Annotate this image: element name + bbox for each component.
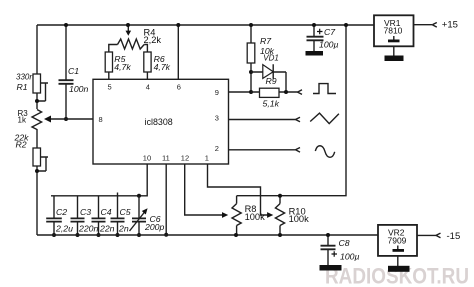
resistor R5 xyxy=(105,52,131,79)
potentiometer R3 xyxy=(18,109,42,131)
node pin6 rail xyxy=(176,23,180,27)
svg-text:100n: 100n xyxy=(69,84,88,94)
wire R3 to R2 xyxy=(36,131,38,148)
svg-text:R2: R2 xyxy=(16,140,27,150)
R10 wiper arrowhead xyxy=(267,212,273,218)
wire pin 1 to R10 wiper xyxy=(208,164,268,215)
capacitor C4 xyxy=(92,196,115,235)
wire pin 3 triangle out xyxy=(229,119,296,121)
svg-text:7810: 7810 xyxy=(384,26,403,36)
wire left rail upper xyxy=(36,25,38,74)
wire pin 2 sine out xyxy=(229,149,296,151)
wire top +rail xyxy=(37,24,374,26)
wire pin 9 xyxy=(229,91,252,93)
node R1 bottom junction xyxy=(35,99,39,103)
svg-text:C5: C5 xyxy=(120,207,131,217)
svg-text:VD1: VD1 xyxy=(263,53,279,62)
potentiometer R4 xyxy=(109,25,162,52)
ground below VR1 xyxy=(385,56,404,62)
ground below C8 xyxy=(320,265,342,271)
node C1 bottom / pin8 wire xyxy=(64,117,68,121)
svg-text:100µ: 100µ xyxy=(319,40,339,50)
capacitor C1 xyxy=(59,25,89,119)
node C5 bottom on rail xyxy=(116,233,120,237)
svg-text:C3: C3 xyxy=(80,207,91,217)
svg-text:3: 3 xyxy=(215,114,219,123)
C5 lead tick over bus xyxy=(117,193,119,196)
wire pin 12 to R8 wiper xyxy=(185,164,223,215)
svg-text:icl8308: icl8308 xyxy=(145,117,173,127)
svg-text:C1: C1 xyxy=(68,66,79,76)
square wave symbol xyxy=(313,84,336,94)
svg-text:2: 2 xyxy=(215,144,219,153)
capacitor C5 xyxy=(111,196,131,235)
svg-text:5: 5 xyxy=(108,82,112,91)
node C7 top xyxy=(312,23,316,27)
resistor R2 xyxy=(14,133,49,236)
svg-text:9: 9 xyxy=(215,88,219,97)
diode VD1 xyxy=(251,53,286,92)
capacitor C8 xyxy=(321,235,360,265)
svg-text:6: 6 xyxy=(177,82,181,91)
svg-text:R9: R9 xyxy=(266,76,277,86)
node C6 top on bus xyxy=(137,194,141,198)
svg-text:1: 1 xyxy=(205,153,209,162)
node R10 top xyxy=(278,194,282,198)
IC U1 icl8308 function generator body xyxy=(93,79,229,164)
node diode anode xyxy=(249,70,253,74)
R8 wiper arrowhead xyxy=(222,212,228,218)
ground below C7 xyxy=(306,51,324,56)
svg-text:-15: -15 xyxy=(447,231,461,242)
svg-text:100k: 100k xyxy=(289,214,310,224)
svg-text:100µ: 100µ xyxy=(340,252,360,262)
node right column top xyxy=(344,23,348,27)
svg-text:2,2k: 2,2k xyxy=(144,35,162,45)
wire right column to R8/R10 top xyxy=(237,25,346,196)
svg-text:22n: 22n xyxy=(99,224,115,234)
svg-text:200p: 200p xyxy=(144,222,164,232)
svg-text:1k: 1k xyxy=(18,116,27,125)
svg-text:10: 10 xyxy=(143,153,151,162)
svg-text:R7: R7 xyxy=(260,36,272,46)
resistor R9 xyxy=(251,76,298,109)
wire pin 10 to cap bus xyxy=(51,164,147,196)
svg-text:C4: C4 xyxy=(101,207,112,217)
capacitor C3 xyxy=(71,196,99,235)
svg-text:7909: 7909 xyxy=(388,236,407,246)
svg-text:8: 8 xyxy=(99,115,103,124)
capacitor C7 xyxy=(307,25,339,51)
regulator VR1 7810 xyxy=(374,15,414,55)
bottom rail xyxy=(37,234,378,236)
variable capacitor C6 xyxy=(130,196,165,235)
potentiometer R8 xyxy=(232,196,265,235)
square output terminal arrow xyxy=(298,90,303,95)
svg-text:C7: C7 xyxy=(324,27,336,37)
svg-text:330r: 330r xyxy=(16,73,32,82)
wire pin 11 to bottom rail xyxy=(165,164,167,235)
+15 output xyxy=(414,24,433,26)
node pin11 bottom xyxy=(164,233,168,237)
node pin9/R9 left xyxy=(249,90,253,94)
capacitor C2 xyxy=(46,196,73,235)
svg-text:C2: C2 xyxy=(56,207,67,217)
resistor R6 xyxy=(144,52,171,79)
node R9 right xyxy=(284,90,288,94)
ground below VR2 xyxy=(388,266,410,272)
svg-text:11: 11 xyxy=(162,153,170,162)
svg-text:5,1k: 5,1k xyxy=(263,99,280,109)
potentiometer R10 xyxy=(275,196,309,235)
-15 output xyxy=(417,234,436,236)
node R7 top xyxy=(249,23,253,27)
svg-text:220n: 220n xyxy=(78,224,98,234)
svg-text:2,2u: 2,2u xyxy=(55,224,73,234)
node C8 top xyxy=(326,233,330,237)
regulator VR2 7909 xyxy=(378,225,417,266)
node R10 bottom xyxy=(278,233,282,237)
svg-text:100k: 100k xyxy=(245,212,266,222)
resistor R7 xyxy=(247,25,274,92)
node R4 wiper top xyxy=(126,23,130,27)
node C6 bottom on rail xyxy=(137,233,141,237)
svg-text:4,7k: 4,7k xyxy=(114,62,131,72)
triangle wave symbol xyxy=(310,113,339,124)
svg-text:4,7k: 4,7k xyxy=(154,62,171,72)
node C1 top xyxy=(64,23,68,27)
node R2 bottom junction xyxy=(35,169,39,173)
svg-text:C8: C8 xyxy=(339,238,350,248)
node C3 bottom on rail xyxy=(76,233,80,237)
svg-text:12: 12 xyxy=(181,153,189,162)
sine wave symbol xyxy=(315,146,334,158)
svg-text:R1: R1 xyxy=(17,82,28,92)
node C2 bottom on rail xyxy=(52,233,56,237)
node C4 bottom on rail xyxy=(97,233,101,237)
svg-text:+15: +15 xyxy=(442,20,458,31)
svg-text:2n: 2n xyxy=(118,224,129,234)
R3 wiper arrow xyxy=(44,116,51,123)
svg-text:4: 4 xyxy=(146,82,150,91)
wire pin 8 to R3 wiper xyxy=(47,118,93,120)
wire pin 6 from rail xyxy=(177,25,179,79)
node R8 bottom xyxy=(234,233,238,237)
resistor R1 xyxy=(16,73,48,110)
